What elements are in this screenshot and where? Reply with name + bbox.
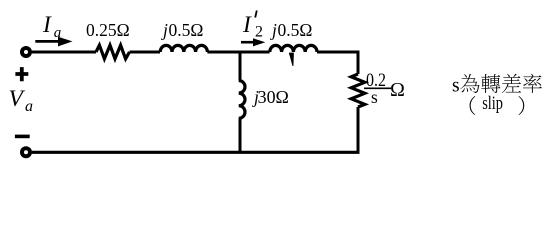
svg-text:j: j (161, 20, 168, 40)
svg-text:0.5Ω: 0.5Ω (278, 20, 313, 40)
node branch: middle vertical wire (239, 52, 242, 81)
current arrow Ia (35, 40, 60, 43)
svg-text:I: I (42, 12, 52, 38)
wire L1 to node and to L2 (207, 51, 269, 54)
inductor L3 j30ohm (vertical) (239, 81, 245, 119)
svg-text:a: a (25, 98, 33, 115)
svg-text:I: I (242, 12, 252, 38)
wire below R2 to bottom (357, 107, 360, 152)
wire top from terminal to R1 (32, 51, 96, 54)
terminal top-left (22, 48, 30, 56)
terminal bottom-left (22, 148, 30, 156)
svg-text:a: a (54, 25, 62, 41)
minus sign (15, 135, 30, 139)
svg-text:s: s (371, 87, 378, 107)
bottom wire (32, 151, 360, 154)
spike under L2 (289, 53, 294, 66)
inductor L1 j0.5ohm (160, 45, 207, 52)
resistor R2 0.2/s ohm (vertical) (351, 74, 365, 107)
svg-text:s: s (452, 76, 460, 97)
svg-text:slip: slip (482, 94, 503, 114)
svg-text:30Ω: 30Ω (258, 87, 289, 107)
resistor R1 0.25ohm (96, 45, 130, 59)
svg-text:0.5Ω: 0.5Ω (169, 20, 204, 40)
svg-text:Ω: Ω (390, 79, 405, 101)
inductor L2 j0.5ohm (270, 45, 317, 52)
wire L2 to right corner (317, 52, 358, 74)
current arrow I2' (241, 41, 255, 44)
svg-text:0.25Ω: 0.25Ω (86, 20, 130, 40)
wire R1 to L1 (130, 51, 161, 54)
plus sign (15, 67, 28, 81)
wire below L3 to bottom (238, 118, 242, 152)
svg-text:j: j (270, 20, 277, 40)
annotation: s = slip (chinese) (452, 74, 542, 115)
svg-text:2: 2 (255, 24, 263, 41)
